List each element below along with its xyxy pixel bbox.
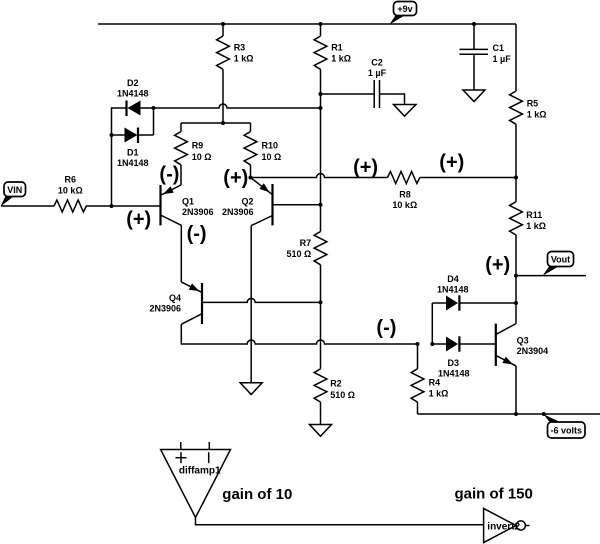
- wire R9-R10 top tee: [181, 122, 251, 124]
- ground for C1: [463, 90, 485, 102]
- svg-text:Q1: Q1: [182, 197, 194, 207]
- resistor R6: [54, 200, 86, 212]
- svg-text:510 Ω: 510 Ω: [286, 249, 311, 259]
- svg-text:gain of 10: gain of 10: [222, 486, 292, 503]
- svg-text:1N4148: 1N4148: [438, 368, 470, 378]
- svg-text:1N4148: 1N4148: [117, 158, 149, 168]
- svg-text:2N3906: 2N3906: [222, 207, 254, 217]
- svg-text:510 Ω: 510 Ω: [330, 390, 355, 400]
- diode D2 1N4148: [117, 78, 153, 116]
- svg-text:+9v: +9v: [397, 4, 412, 14]
- svg-text:10 kΩ: 10 kΩ: [58, 186, 83, 196]
- svg-text:1 kΩ: 1 kΩ: [527, 110, 547, 120]
- svg-text:C2: C2: [371, 58, 383, 68]
- op-amp diffamp1: [161, 442, 231, 518]
- node dot Q2 base node: [319, 203, 323, 207]
- node dot at R1 column y108: [319, 106, 323, 110]
- wire Vout node down to D4 node: [515, 276, 517, 324]
- wire R1 bottom down to Q2 base node: [320, 69, 322, 204]
- svg-text:R9: R9: [192, 141, 204, 151]
- wire C2 tap to C2: [321, 93, 375, 95]
- svg-text:Q4: Q4: [169, 293, 181, 303]
- wire Q2 collector down to ground: [250, 226, 252, 383]
- resistor R1: [314, 24, 351, 69]
- svg-text:10 Ω: 10 Ω: [262, 152, 282, 162]
- node dot -6 callout tail: [542, 412, 546, 416]
- wire R8 node down to R11: [515, 178, 517, 202]
- node dot D4 right: [514, 301, 518, 305]
- node dot rail-C1: [472, 22, 476, 26]
- wire Q2 base to R1 column: [273, 204, 321, 206]
- wire R10 to emitter node: [250, 165, 252, 178]
- svg-text:R11: R11: [526, 210, 542, 220]
- svg-text:R10: R10: [262, 141, 279, 151]
- wire VIN to R6: [1, 205, 54, 207]
- wire R4 bottom to -6 rail: [417, 402, 419, 414]
- svg-text:(+): (+): [223, 167, 248, 189]
- wire diffamp1 output to invert2: [196, 518, 484, 525]
- resistor R7: [286, 205, 326, 265]
- svg-text:R2: R2: [330, 379, 342, 389]
- svg-text:R1: R1: [331, 43, 343, 53]
- svg-text:2N3906: 2N3906: [182, 207, 214, 217]
- svg-text:2N3904: 2N3904: [517, 346, 549, 356]
- svg-text:(-): (-): [187, 223, 207, 245]
- wire R5 to R8 node: [515, 124, 517, 177]
- wire R8 to right column: [420, 177, 516, 179]
- svg-text:R8: R8: [399, 190, 411, 200]
- resistor R11: [510, 202, 546, 235]
- svg-text:VIN: VIN: [7, 185, 22, 195]
- wire R6 to Q1 base: [86, 205, 160, 207]
- wire R10 node to R8 with hop: [251, 174, 388, 178]
- node dot rail-R3: [221, 22, 225, 26]
- node VIN callout: [1, 182, 26, 207]
- resistor R4: [411, 344, 448, 402]
- ground for C2: [394, 105, 417, 117]
- svg-text:10 kΩ: 10 kΩ: [392, 200, 417, 210]
- wire D4-D3 left vertical: [431, 303, 433, 344]
- node -6 volts callout: [544, 414, 586, 438]
- node dot D1 left: [110, 133, 114, 137]
- wire C1 bottom to ground: [473, 54, 475, 90]
- wire Q1 collector down: [180, 225, 182, 282]
- svg-text:R7: R7: [300, 238, 312, 248]
- svg-text:invert2: invert2: [487, 522, 520, 533]
- node dot VIN-diode junction: [110, 204, 114, 208]
- transistor Q4 2N3906: [149, 282, 202, 324]
- resistor R3: [217, 24, 254, 69]
- svg-text:C1: C1: [493, 43, 505, 53]
- svg-text:1N4148: 1N4148: [117, 89, 149, 99]
- wire R3 bottom to tee: [222, 69, 224, 123]
- wire R9 to Q1 emitter: [180, 165, 182, 185]
- wire Q3 emitter down to -6 rail: [515, 366, 517, 414]
- wire R2 bottom to ground: [320, 402, 322, 424]
- wire Q4 collector down and right with hops: [181, 324, 417, 344]
- node dot Q3 emitter rail: [514, 412, 518, 416]
- node dot Q2 emitter / R8: [249, 176, 253, 180]
- svg-text:R5: R5: [527, 98, 539, 108]
- diode D4 1N4148: [432, 274, 516, 311]
- svg-text:Q2: Q2: [241, 197, 253, 207]
- svg-text:D2: D2: [127, 78, 139, 88]
- node dot rail-R1: [319, 22, 323, 26]
- svg-text:Q3: Q3: [517, 336, 529, 346]
- capacitor C1 1uF: [460, 43, 512, 64]
- wire C1 top lead: [473, 24, 475, 49]
- resistor R8: [388, 172, 420, 211]
- diode D1 1N4148: [112, 128, 154, 169]
- svg-text:1 kΩ: 1 kΩ: [331, 53, 351, 63]
- svg-text:D3: D3: [448, 358, 460, 368]
- resistor R5: [510, 91, 547, 124]
- resistor R10: [244, 123, 281, 165]
- svg-text:(-): (-): [376, 317, 396, 339]
- wire diode ladder right vertical: [153, 108, 155, 135]
- svg-text:(-): (-): [159, 163, 179, 185]
- svg-text:2N3906: 2N3906: [149, 304, 181, 314]
- node Vout callout: [543, 252, 574, 276]
- wire -6 volts rail: [418, 413, 600, 415]
- svg-text:(+): (+): [485, 254, 510, 276]
- wire Q4 base to R7 column with hop: [202, 298, 321, 302]
- svg-text:diffamp1: diffamp1: [179, 465, 221, 476]
- wire D2 to R1 column with hop over R3: [154, 104, 321, 108]
- svg-text:1N4148: 1N4148: [437, 284, 469, 294]
- node dot R4 top: [416, 342, 420, 346]
- svg-text:D1: D1: [127, 148, 139, 158]
- ground under R2: [310, 425, 332, 437]
- svg-text:Vout: Vout: [551, 255, 570, 265]
- buffer invert2: [484, 508, 530, 542]
- wire rail right corner down to R5: [515, 24, 517, 91]
- svg-text:1 kΩ: 1 kΩ: [526, 221, 546, 231]
- svg-text:(+): (+): [439, 152, 464, 174]
- diode D3 1N4148: [432, 336, 496, 378]
- svg-text:-6 volts: -6 volts: [551, 426, 583, 436]
- svg-text:(+): (+): [353, 156, 378, 178]
- transistor Q2 2N3906: [222, 178, 273, 226]
- wire R7 bottom to Q4 base node: [320, 265, 322, 303]
- svg-text:1 µF: 1 µF: [493, 54, 512, 64]
- resistor R2: [314, 369, 355, 402]
- node dot C2 tap: [319, 92, 323, 96]
- svg-text:1 µF: 1 µF: [368, 68, 387, 78]
- wire Q4 base node down to R2: [320, 302, 322, 368]
- node dot R8 right: [514, 176, 518, 180]
- svg-text:1 kΩ: 1 kΩ: [429, 388, 449, 398]
- node dot D2 right: [152, 106, 156, 110]
- svg-text:10 Ω: 10 Ω: [192, 152, 212, 162]
- wire C2 to ground: [380, 94, 405, 105]
- node dot Vout: [514, 274, 518, 278]
- svg-text:R6: R6: [65, 175, 77, 185]
- node dot Q4 base node: [319, 300, 323, 304]
- capacitor C2 1uF: [368, 58, 387, 109]
- svg-text:R3: R3: [234, 43, 246, 53]
- ground under Q2 collector: [240, 383, 262, 395]
- node dot D3 left: [430, 342, 434, 346]
- svg-text:gain of 150: gain of 150: [455, 486, 533, 503]
- svg-text:1 kΩ: 1 kΩ: [234, 53, 254, 63]
- svg-text:R4: R4: [429, 377, 441, 387]
- resistor R9: [175, 123, 212, 165]
- node +9v callout: [390, 2, 417, 25]
- wire R11 to Vout node: [515, 235, 517, 276]
- svg-text:(+): (+): [126, 209, 151, 231]
- svg-text:D4: D4: [447, 274, 459, 284]
- node dot R9R10 tee: [221, 121, 225, 125]
- transistor Q1 2N3906: [161, 185, 214, 225]
- wire Vout node to right: [516, 275, 586, 277]
- wire diode ladder left vertical: [112, 108, 127, 206]
- wire top +9v rail: [98, 23, 516, 25]
- transistor Q3 2N3904: [496, 324, 548, 366]
